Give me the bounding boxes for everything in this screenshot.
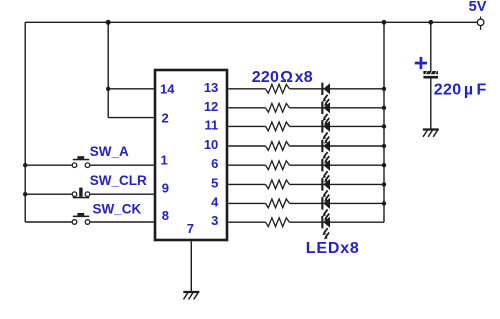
junction: anode bus row 12 <box>382 106 386 110</box>
label SW_CLR <box>90 173 147 188</box>
wire: IC pin 5 to resistor R6 <box>228 183 265 185</box>
wire: IC pin 10 to resistor R4 <box>228 145 265 147</box>
svg-text:12: 12 <box>204 99 218 114</box>
wire: top rail down to capacitor C1 <box>430 22 432 71</box>
svg-text:9: 9 <box>162 181 169 196</box>
svg-text:4: 4 <box>211 194 219 209</box>
svg-text:11: 11 <box>205 117 219 132</box>
junction: top rail to pin14/2 branch <box>106 20 111 25</box>
resistor R8 220 ohm <box>266 218 290 227</box>
LED D8 <box>321 216 330 239</box>
svg-text:10: 10 <box>204 137 218 152</box>
junction: anode bus row 4 <box>382 201 386 205</box>
wire: resistor R6 to LED D6 and bus <box>290 183 385 185</box>
pin number 2 <box>162 110 169 125</box>
op IC U1 body (14-pin logic IC) <box>155 70 227 240</box>
wire: resistor R2 to LED D2 and bus <box>290 107 385 109</box>
wire: IC pin 11 to resistor R3 <box>228 125 265 127</box>
resistor R2 220 ohm <box>266 103 290 112</box>
LED D2 <box>321 102 330 125</box>
LED D6 <box>321 178 330 201</box>
svg-text:5V: 5V <box>469 0 487 15</box>
junction: top rail / capacitor branch <box>428 20 433 25</box>
svg-text:220µF: 220µF <box>434 81 487 98</box>
wire: +5V top rail <box>25 21 477 23</box>
junction: left rail at SW_CLR row <box>23 192 27 196</box>
svg-text:6: 6 <box>211 156 218 171</box>
svg-text:3: 3 <box>211 213 218 228</box>
pin number 5 <box>211 175 218 190</box>
junction: branch at pin 14 wire <box>106 87 110 91</box>
svg-text:1: 1 <box>161 153 168 168</box>
capacitor C1 220uF electrolytic <box>423 71 438 79</box>
LED D5 <box>321 159 330 182</box>
wire: SW_A to IC pin 1 <box>90 164 154 166</box>
svg-text:5: 5 <box>211 175 218 190</box>
resistor R7 220 ohm <box>266 199 290 208</box>
pin number 6 <box>211 156 218 171</box>
svg-text:LEDx8: LEDx8 <box>306 240 360 257</box>
pin number 12 <box>204 99 218 114</box>
wire: resistor R3 to LED D3 and bus <box>290 125 385 127</box>
LED D1 <box>321 83 330 106</box>
pin number 14 <box>160 81 175 96</box>
pin number 3 <box>211 213 218 228</box>
wire: IC pin 6 to resistor R5 <box>228 164 265 166</box>
wire: to IC pin 2 <box>108 117 154 119</box>
junction: anode bus row 11 <box>382 124 386 128</box>
net label 5V <box>469 0 487 15</box>
wire: IC pin 3 to resistor R8 <box>228 221 265 223</box>
wire: resistor R4 to LED D4 and bus <box>290 145 385 147</box>
wire: resistor R5 to LED D5 and bus <box>290 164 385 166</box>
wire: capacitor to ground <box>430 79 432 130</box>
wire: resistor R7 to LED D7 and bus <box>290 202 385 204</box>
junction: top rail / anode bus <box>382 20 387 25</box>
value label 220uF <box>434 81 487 98</box>
pin number 13 <box>204 80 218 95</box>
svg-text:14: 14 <box>160 81 175 96</box>
wire: IC pin 12 to resistor R2 <box>228 107 265 109</box>
wire: left rail to SW_CK <box>25 221 72 223</box>
svg-text:SW_A: SW_A <box>90 144 129 159</box>
wire: SW_CLR to IC pin 9 <box>90 193 154 195</box>
svg-text:8: 8 <box>162 208 169 223</box>
wire: IC pin 13 to resistor R1 <box>228 88 265 90</box>
pin number 1 <box>161 153 168 168</box>
polarity + mark <box>415 57 427 69</box>
ground under capacitor <box>423 130 439 137</box>
svg-text:SW_CLR: SW_CLR <box>90 173 147 188</box>
junction: left rail at SW_A row <box>23 163 27 167</box>
wire: left rail to SW_CLR <box>25 193 72 195</box>
LED D4 <box>321 140 330 163</box>
resistor R5 220 ohm <box>266 161 290 170</box>
label SW_CK <box>93 201 142 216</box>
power terminal 5V <box>477 17 484 30</box>
wire: branch down to IC pins 14 and 2 <box>107 22 109 117</box>
junction: anode bus row 13 <box>382 87 386 91</box>
pushbutton switch SW_CK (N.O.) <box>72 213 90 224</box>
label 220ohm x8 <box>252 69 313 86</box>
pin number 9 <box>162 181 169 196</box>
label LEDx8 <box>306 240 360 257</box>
junction: anode bus row 10 <box>382 144 386 148</box>
pushbutton switch SW_A (N.O.) <box>72 156 90 167</box>
svg-text:SW_CK: SW_CK <box>93 201 142 216</box>
pin number 10 <box>204 137 218 152</box>
junction: anode bus row 6 <box>382 163 386 167</box>
resistor R3 220 ohm <box>266 122 290 131</box>
resistor R4 220 ohm <box>266 142 290 151</box>
pin number 8 <box>162 208 169 223</box>
wire: to IC pin 14 <box>108 88 154 90</box>
resistor R6 220 ohm <box>266 180 290 189</box>
LED D3 <box>321 120 330 143</box>
wire: IC pin 4 to resistor R7 <box>228 202 265 204</box>
ground under IC pin 7 <box>183 292 199 299</box>
LED D7 <box>321 197 330 220</box>
pin number 4 <box>211 194 219 209</box>
wire: resistor R1 to LED D1 and bus <box>290 88 385 90</box>
label SW_A <box>90 144 129 159</box>
wire: LED anode bus vertical <box>383 22 385 222</box>
pushbutton switch SW_CLR (N.C.) <box>72 188 90 199</box>
wire: left rail to SW_A <box>25 164 72 166</box>
svg-text:220Ωx8: 220Ωx8 <box>252 69 313 86</box>
svg-text:13: 13 <box>204 80 218 95</box>
pin number 11 <box>205 117 219 132</box>
svg-text:2: 2 <box>162 110 169 125</box>
resistor R1 220 ohm <box>266 84 290 93</box>
wire: SW_CK to IC pin 8 <box>90 221 154 223</box>
wire: resistor R8 to LED D8 and bus <box>290 221 385 223</box>
svg-text:7: 7 <box>187 221 194 236</box>
wire: left vertical rail from top rail to switches <box>24 22 26 222</box>
junction: anode bus row 5 <box>382 182 386 186</box>
pin number 7 <box>187 221 194 236</box>
wire: IC pin 7 to ground <box>190 241 192 291</box>
